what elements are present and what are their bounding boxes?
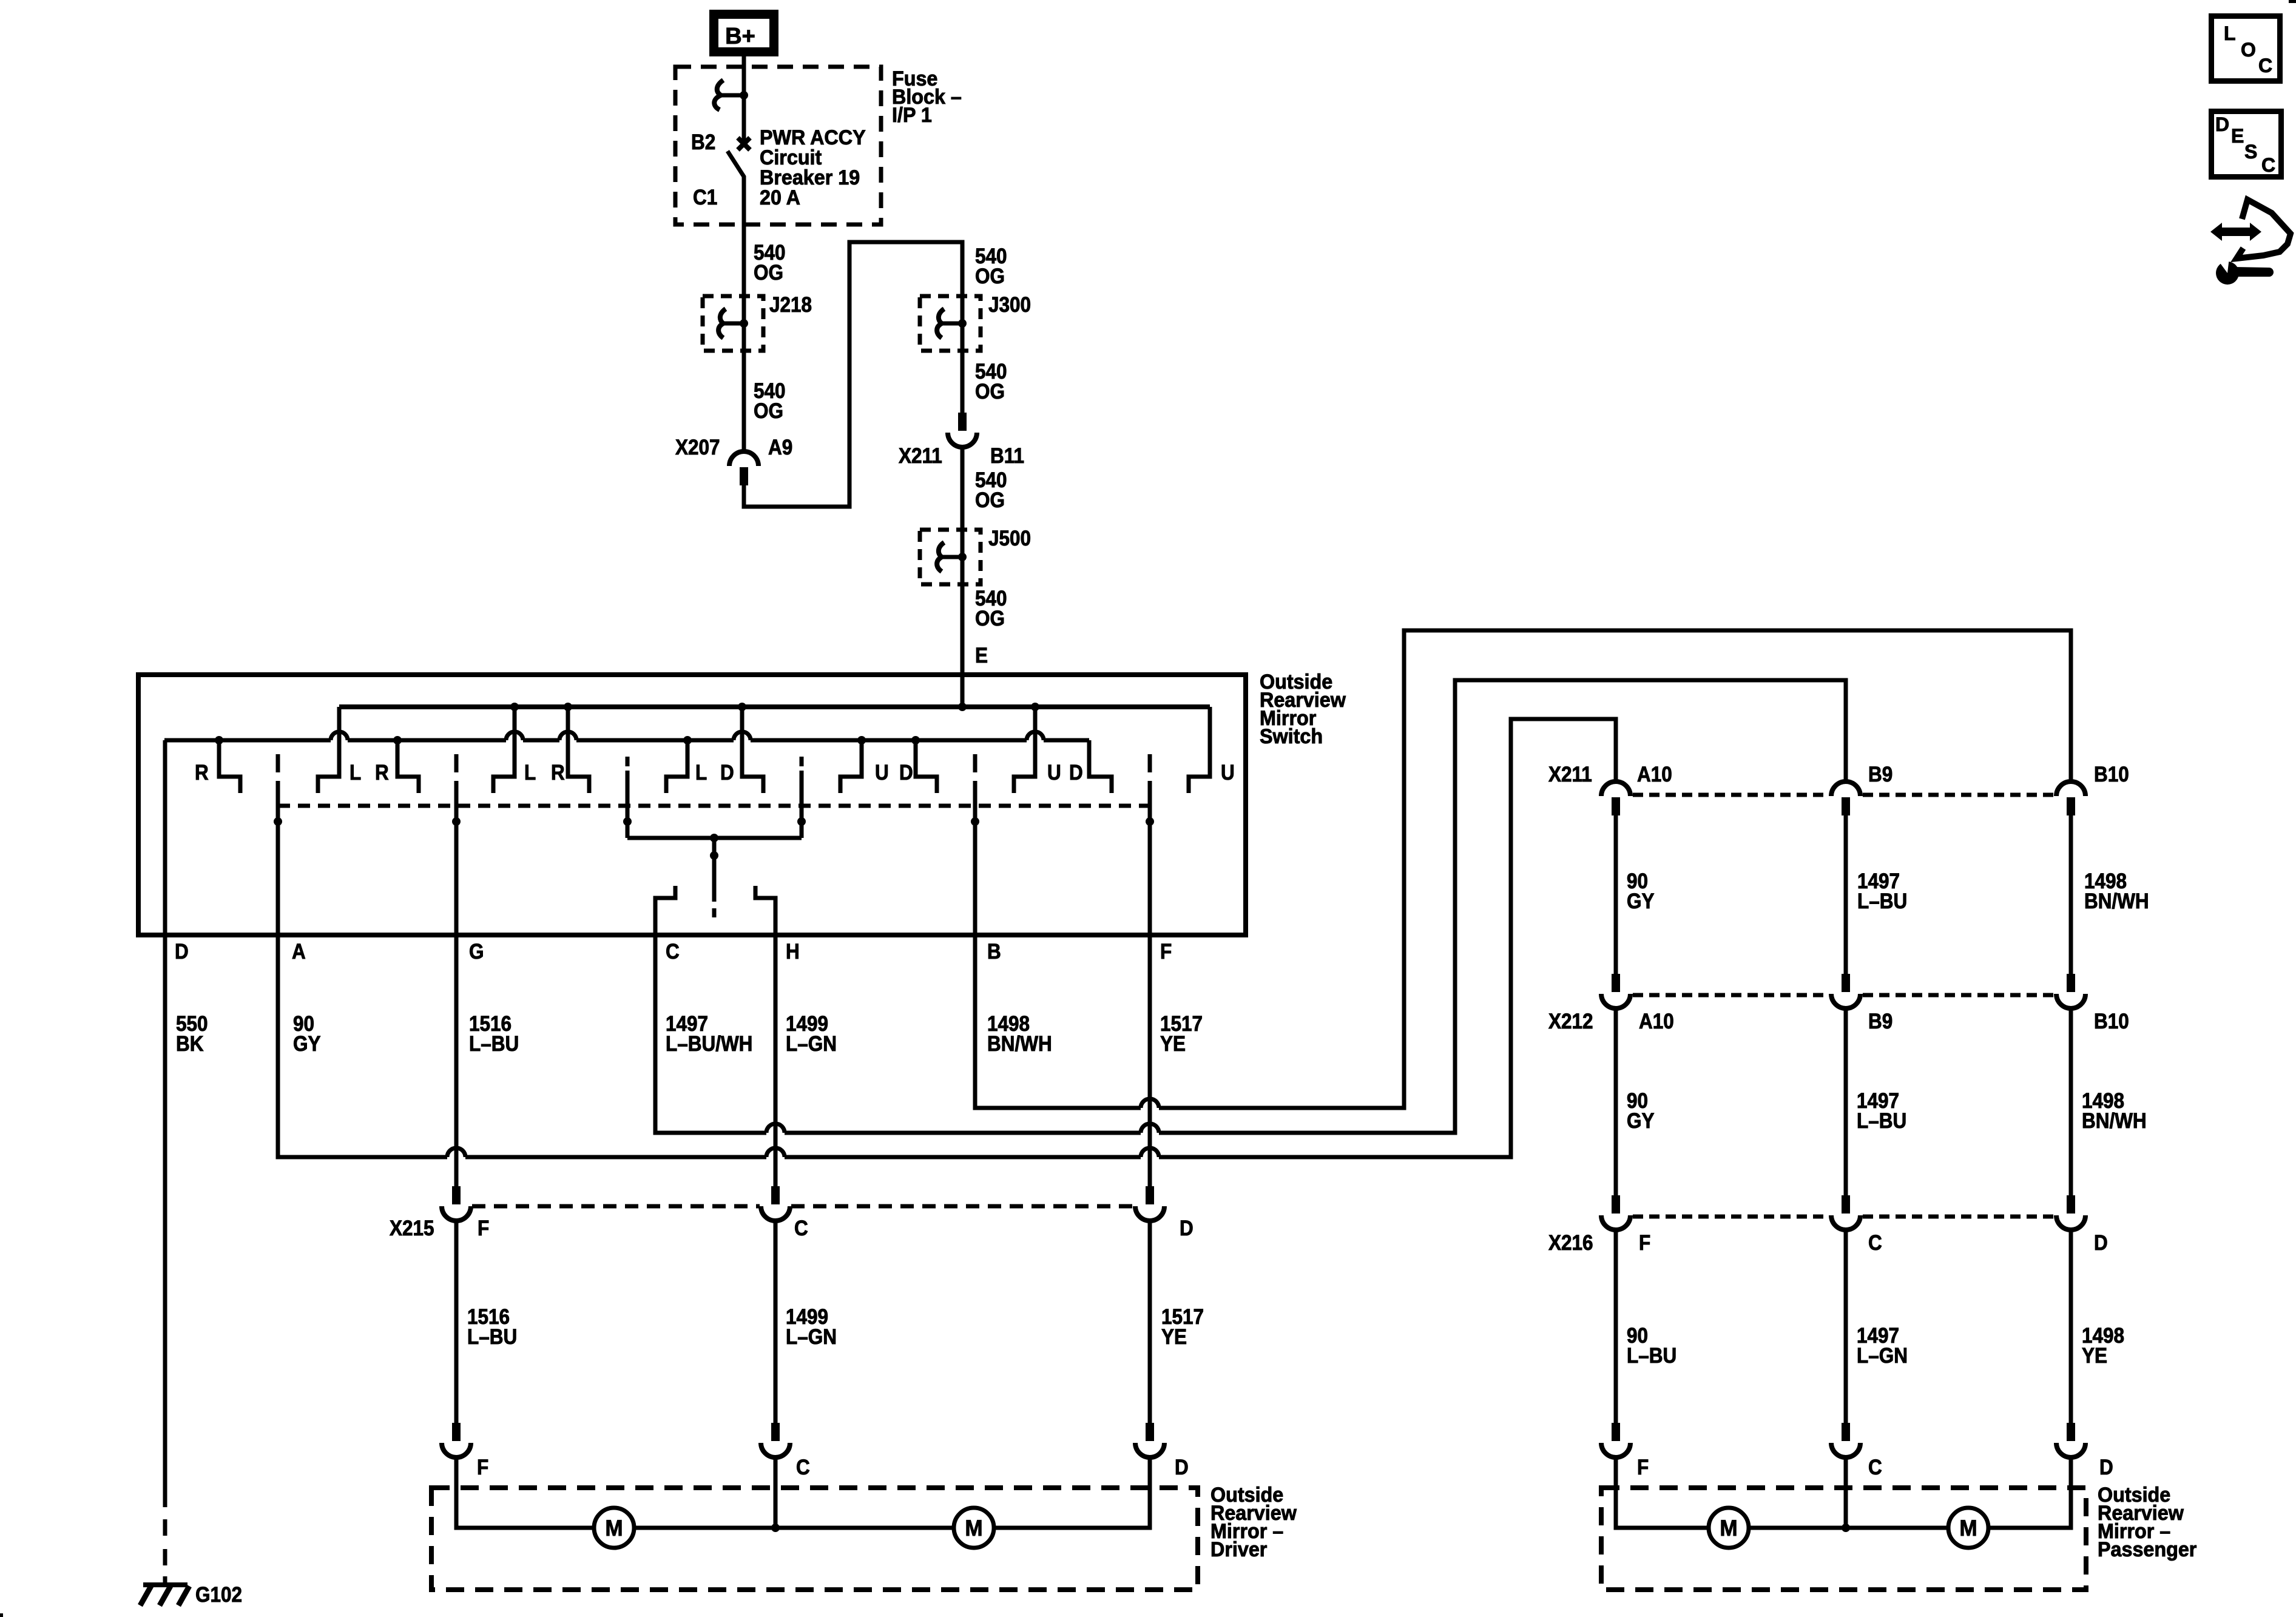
switch center arm left [626, 778, 630, 838]
connector X211 pin B10 [2056, 781, 2085, 796]
wire 1498 BN/WH pin B [973, 798, 977, 1108]
LOC legend box [2212, 16, 2280, 81]
svg-text:D: D [175, 940, 189, 964]
switch center arm right dashed tip [800, 757, 804, 778]
svg-text:L–BU: L–BU [467, 1326, 517, 1349]
svg-text:OG: OG [975, 489, 1005, 513]
wire 90 GY pin A [276, 798, 280, 1157]
driver mirror box [431, 1488, 1198, 1590]
circuit breaker 19 feed wire [742, 68, 746, 144]
splice J500 box [920, 530, 981, 584]
connector X216 pin D [2067, 1195, 2075, 1214]
switch center common bar [627, 836, 802, 840]
svg-text:YE: YE [2082, 1345, 2107, 1368]
contact H center [755, 886, 775, 935]
svg-text:20 A: 20 A [760, 186, 800, 209]
switch center arm left dashed tip [626, 757, 630, 778]
svg-text:M: M [1959, 1515, 1977, 1541]
svg-text:OG: OG [975, 607, 1005, 631]
connector X215 pin D [1146, 1186, 1154, 1204]
connector X216 pin C [1842, 1195, 1850, 1214]
connector X215 pin C [771, 1186, 780, 1204]
contact R pole2 [397, 740, 419, 793]
circuit breaker thermal curl [740, 91, 748, 100]
svg-text:OG: OG [975, 265, 1005, 289]
contact U pole5 [840, 740, 862, 793]
svg-text:X212: X212 [1548, 1010, 1593, 1034]
wire 1516 L-BU to driver mirror [454, 1221, 459, 1423]
svg-text:BN/WH: BN/WH [2084, 890, 2149, 914]
wire 1498 horizontal run [973, 1106, 1141, 1110]
svg-text:G102: G102 [195, 1584, 242, 1607]
svg-text:B10: B10 [2094, 1010, 2129, 1034]
contact U pole7 [1189, 707, 1210, 793]
svg-text:X211: X211 [1548, 763, 1592, 787]
connector passenger mirror pin C [1842, 1423, 1850, 1441]
wire 550 BK dashed to ground [163, 1519, 167, 1536]
wire 1497 horizontal run [653, 1131, 767, 1135]
svg-text:F: F [478, 1217, 489, 1241]
svg-text:L: L [2224, 22, 2236, 44]
switch arm B dot [971, 817, 979, 826]
wire passenger mirror internal [1614, 1526, 2073, 1530]
svg-text:J218: J218 [769, 294, 812, 317]
svg-text:BN/WH: BN/WH [987, 1033, 1052, 1056]
svg-text:D: D [899, 761, 913, 785]
motor M driver right [954, 1508, 994, 1548]
wire 540 OG X211 to J500 [961, 447, 965, 557]
svg-text:A10: A10 [1639, 1010, 1674, 1034]
svg-text:GY: GY [293, 1033, 320, 1056]
svg-text:F: F [1160, 940, 1172, 964]
adjust mirror icon wrench [2216, 258, 2274, 285]
svg-text:X216: X216 [1548, 1232, 1593, 1255]
connector passenger mirror pin D [2067, 1423, 2075, 1441]
splice J300 [958, 319, 967, 328]
switch center blade dashed tip [712, 908, 717, 917]
motor M passenger right [1948, 1508, 1988, 1548]
connector X211 pin A10 [1601, 781, 1630, 796]
splice J218 box [703, 296, 763, 351]
connector X212 pin B9 [1842, 974, 1850, 992]
svg-text:YE: YE [1161, 1326, 1187, 1349]
wire 90 GY X211 to X212 [1614, 815, 1618, 974]
svg-text:X207: X207 [675, 436, 720, 460]
switch arm F dot [1146, 817, 1154, 826]
svg-text:D: D [1180, 1217, 1194, 1241]
svg-text:M: M [1720, 1515, 1737, 1541]
svg-text:OG: OG [754, 400, 783, 424]
switch arm F dashed tip [1148, 754, 1152, 798]
svg-text:C: C [2258, 55, 2272, 76]
connector X211 pin B9 [1831, 781, 1860, 796]
svg-text:L: L [524, 761, 536, 785]
wire 1497 L-GN X216 to passenger mirror [1844, 1230, 1848, 1423]
svg-text:L–BU: L–BU [1627, 1345, 1676, 1368]
svg-text:B: B [987, 940, 1001, 964]
power feed B+ terminal [714, 15, 774, 52]
connector X216 dashed line [1633, 1215, 1829, 1219]
wire 1497 L-BU/WH pin C [653, 935, 658, 1133]
contact R pole1 [219, 740, 240, 793]
switch arm G dashed tip [454, 754, 459, 798]
svg-text:C: C [1868, 1232, 1882, 1255]
splice J500 [958, 553, 967, 561]
contact L pole4 [666, 740, 687, 793]
switch center arm right [800, 778, 804, 838]
svg-text:M: M [965, 1515, 982, 1541]
contact C center [655, 886, 675, 935]
switch feed bus [339, 704, 1210, 709]
connector X212 pin B10 [2067, 974, 2075, 992]
svg-text:U: U [875, 761, 889, 785]
svg-text:U: U [1221, 761, 1235, 785]
contact U pole6 [1033, 707, 1038, 752]
svg-text:U: U [1047, 761, 1061, 785]
wire 1516 L-BU pin G [454, 798, 459, 1186]
contact D pole4 [740, 707, 745, 752]
wire driver mirror pin C drop [774, 1457, 778, 1528]
splice J300 box [920, 296, 981, 351]
svg-text:BN/WH: BN/WH [2082, 1110, 2147, 1133]
page corner mark top right [2289, 0, 2296, 3]
svg-text:I/P 1: I/P 1 [892, 104, 932, 127]
svg-text:GY: GY [1627, 890, 1654, 914]
svg-text:G: G [469, 940, 484, 964]
connector driver mirror pin D [1146, 1423, 1154, 1441]
svg-text:O: O [2241, 39, 2256, 61]
outside rearview mirror switch box [138, 675, 1246, 935]
svg-text:B11: B11 [990, 445, 1024, 468]
svg-text:J300: J300 [988, 294, 1031, 317]
svg-text:D: D [720, 761, 734, 785]
svg-text:E: E [2231, 125, 2244, 147]
connector X212 dashed line [1633, 993, 1829, 998]
page corner mark bottom left [0, 1613, 3, 1617]
contact R pole3 [566, 707, 570, 752]
svg-text:C1: C1 [693, 186, 717, 210]
svg-text:X215: X215 [390, 1217, 434, 1241]
DESC legend box [2212, 112, 2281, 177]
passenger mirror box [1601, 1488, 2086, 1590]
svg-text:C: C [796, 1456, 810, 1480]
wire 1517 YE to driver mirror [1148, 1221, 1152, 1423]
connector X207 pin A9 [729, 451, 758, 466]
svg-text:A: A [292, 940, 306, 964]
svg-text:F: F [477, 1456, 488, 1480]
svg-text:L–GN: L–GN [1857, 1345, 1908, 1368]
splice J218 [740, 319, 748, 328]
svg-text:L: L [349, 761, 361, 785]
svg-text:R: R [195, 761, 209, 785]
wire 540 OG J500 to switch pin E [961, 557, 965, 707]
contact D pole5 [916, 740, 937, 793]
ground G102 symbol [143, 1582, 187, 1587]
svg-text:YE: YE [1160, 1033, 1186, 1056]
svg-text:C: C [2261, 154, 2275, 176]
svg-text:E: E [975, 644, 988, 668]
connector driver mirror pin F [452, 1423, 461, 1441]
wire 550 BK pin D [163, 740, 167, 1507]
svg-text:S: S [2244, 141, 2257, 163]
svg-text:B+: B+ [725, 24, 755, 49]
svg-text:R: R [551, 761, 565, 785]
switch linkage dashed line [278, 804, 1150, 808]
adjust mirror icon arrow [2210, 223, 2261, 241]
bus junction dots [510, 703, 519, 711]
connector X211 pin B11 [958, 413, 967, 431]
wire B+ to fuse block [742, 56, 746, 68]
switch center common stem [712, 838, 717, 902]
svg-text:Driver: Driver [1210, 1538, 1267, 1561]
svg-text:D: D [2094, 1232, 2108, 1255]
wire 540 OG J218 to X207 [742, 323, 746, 451]
svg-text:L–GN: L–GN [786, 1033, 837, 1056]
svg-text:L–GN: L–GN [786, 1326, 837, 1349]
wire passenger mirror pin D drop [2069, 1457, 2073, 1530]
adjust mirror icon outline [2237, 200, 2291, 258]
connector driver mirror pin C [771, 1423, 780, 1441]
svg-text:J500: J500 [988, 527, 1031, 551]
wire passenger mirror pin F drop [1614, 1457, 1618, 1530]
connector X211 dashed line [1633, 793, 1829, 797]
svg-text:OG: OG [975, 380, 1005, 404]
contact L pole3 [513, 707, 517, 752]
wire 1497 L-BU X212 to X216 [1844, 1008, 1848, 1195]
connector X212 pin A10 [1612, 974, 1620, 992]
wire 540 OG breaker to J218 [742, 224, 746, 323]
connector X215 pin F [452, 1186, 461, 1204]
switch arm G dot [452, 817, 461, 826]
connector passenger mirror pin F [1612, 1423, 1620, 1441]
motor M passenger left [1709, 1508, 1749, 1548]
svg-text:B9: B9 [1868, 1010, 1893, 1034]
fuse block dashed box [675, 67, 881, 224]
svg-text:D: D [1175, 1456, 1189, 1480]
svg-text:A9: A9 [768, 436, 792, 460]
wire 1498 YE X216 to passenger mirror [2069, 1230, 2073, 1423]
svg-text:C: C [794, 1217, 808, 1241]
wire 1497 riser [1455, 680, 1846, 1133]
circuit breaker blade [728, 151, 744, 224]
svg-text:L: L [695, 761, 707, 785]
svg-text:F: F [1637, 1456, 1649, 1480]
wire 90 GY riser [1511, 719, 1616, 1157]
svg-text:L–BU: L–BU [469, 1033, 519, 1056]
svg-text:L–BU: L–BU [1857, 890, 1907, 914]
wire 1499 L-GN to driver mirror [774, 1221, 778, 1423]
contact D pole6 [1089, 740, 1112, 793]
svg-text:C: C [666, 940, 680, 964]
wire passenger mirror pin C drop [1844, 1457, 1848, 1528]
svg-text:OG: OG [754, 262, 783, 285]
common line junction dots [215, 736, 223, 744]
wire 90 GY horizontal run [276, 1155, 448, 1160]
svg-text:GY: GY [1627, 1110, 1654, 1133]
svg-text:D: D [1069, 761, 1083, 785]
circuit breaker contact x [738, 138, 750, 150]
svg-text:Switch: Switch [1260, 725, 1323, 748]
wire driver mirror pin D drop [1148, 1457, 1152, 1530]
svg-text:B2: B2 [691, 131, 715, 155]
contact L pole2 [337, 707, 342, 752]
svg-text:D: D [2099, 1456, 2113, 1480]
switch arm A dot [274, 817, 282, 826]
svg-text:X211: X211 [899, 445, 942, 468]
wire 90 L-BU X216 to passenger mirror [1614, 1230, 1618, 1423]
wire 1499 L-GN pin H [774, 935, 778, 1186]
wire driver mirror internal [454, 1526, 1152, 1530]
wire 540 OG J300 to X211 [961, 323, 965, 413]
svg-text:L–BU: L–BU [1857, 1110, 1906, 1133]
switch common line [164, 738, 331, 743]
svg-text:A10: A10 [1637, 763, 1672, 787]
svg-text:R: R [375, 761, 389, 785]
wire 1497 L-BU X211 to X212 [1844, 815, 1848, 974]
wire 1498 BN/WH X212 to X216 [2069, 1008, 2073, 1195]
svg-text:M: M [605, 1515, 623, 1541]
switch arm B dashed tip [973, 754, 977, 798]
svg-text:F: F [1639, 1232, 1650, 1255]
connector X216 pin F [1612, 1195, 1620, 1214]
motor M driver left [594, 1508, 634, 1548]
connector X215 dashed line [472, 1204, 760, 1209]
switch arm A dashed tip [276, 754, 280, 798]
wire X207 to J300 riser [744, 242, 962, 507]
svg-text:Passenger: Passenger [2098, 1538, 2196, 1561]
svg-text:D: D [2215, 113, 2229, 135]
wire 90 GY X212 to X216 [1614, 1008, 1618, 1195]
svg-text:H: H [786, 940, 800, 964]
svg-text:L–BU/WH: L–BU/WH [666, 1033, 752, 1056]
svg-text:BK: BK [176, 1033, 203, 1056]
wire 1517 YE pin F [1148, 798, 1152, 1186]
svg-text:B9: B9 [1868, 763, 1893, 787]
svg-text:C: C [1868, 1456, 1882, 1480]
wire 1498 riser [1404, 630, 2071, 1108]
wire 1498 BN/WH X211 to X212 [2069, 815, 2073, 974]
svg-text:B10: B10 [2094, 763, 2129, 787]
wire driver mirror pin F drop [454, 1457, 459, 1530]
